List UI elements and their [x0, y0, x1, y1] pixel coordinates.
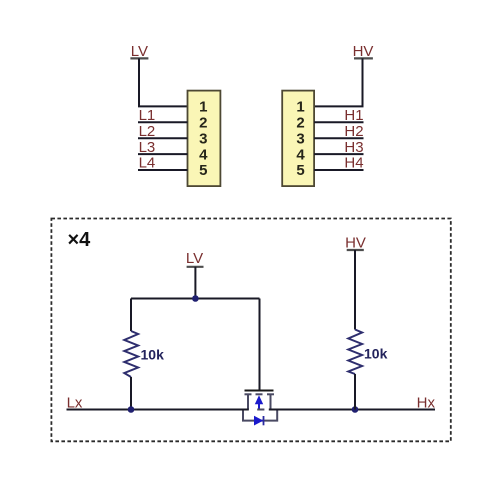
wire net Hx	[269, 409, 435, 411]
svg-text:LV: LV	[186, 250, 203, 267]
wire J1 pin 5 (net L4)	[138, 169, 188, 171]
transistor Q1 bulk foot	[257, 409, 264, 411]
resistor R2 10k	[348, 250, 362, 410]
resistor R1 10k	[124, 299, 138, 410]
transistor Q1 source stub	[247, 394, 249, 409]
svg-text:H1: H1	[344, 107, 363, 124]
svg-text:2: 2	[199, 115, 207, 132]
connector J2	[282, 91, 314, 187]
svg-text:2: 2	[296, 115, 304, 132]
transistor Q1 drain stub	[270, 394, 272, 409]
×4 multiplier cell boundary (dashed box)	[51, 219, 450, 442]
supply LV (top)	[130, 43, 148, 60]
wire LV rail	[131, 298, 260, 300]
svg-text:10k: 10k	[364, 346, 388, 362]
wire LV drop	[194, 267, 196, 299]
supply HV (cell)	[345, 235, 366, 252]
wire J1 pin 3 (net L2)	[138, 137, 188, 139]
wire J1 pin 4 (net L3)	[138, 153, 188, 155]
svg-text:3: 3	[296, 130, 304, 147]
svg-text:4: 4	[296, 146, 305, 163]
svg-text:1: 1	[296, 99, 304, 116]
svg-text:L1: L1	[139, 107, 156, 124]
svg-text:L3: L3	[139, 139, 156, 156]
wire J2 pin 3 (net H2)	[314, 137, 363, 139]
supply LV (cell)	[186, 250, 204, 267]
supply HV (top)	[353, 43, 374, 60]
svg-text:H3: H3	[344, 139, 363, 156]
wire J2 pin 4 (net H3)	[314, 153, 363, 155]
svg-text:H2: H2	[344, 123, 363, 140]
svg-text:1: 1	[199, 99, 207, 116]
junction dot (Lx / R1)	[128, 406, 135, 413]
junction dot (LV rail)	[192, 295, 199, 302]
wire gate drop	[259, 299, 261, 390]
wire LV to J1 pin 1	[139, 58, 188, 106]
svg-text:L2: L2	[139, 123, 156, 140]
wire HV to J2 pin 1	[314, 58, 362, 106]
svg-text:Hx: Hx	[417, 395, 436, 412]
connector J1	[188, 91, 221, 187]
wire net Lx	[67, 409, 249, 411]
transistor Q1 bulk arrow	[255, 395, 263, 409]
svg-text:H4: H4	[344, 155, 363, 172]
svg-text:L4: L4	[139, 155, 156, 172]
transistor Q1 body-diode loop	[243, 410, 277, 421]
svg-text:Lx: Lx	[67, 395, 83, 412]
svg-text:3: 3	[199, 130, 207, 147]
transistor Q1 body-diode	[254, 416, 264, 426]
svg-text:4: 4	[199, 146, 208, 163]
transistor Q1 channel contacts	[245, 393, 275, 395]
wire J2 pin 2 (net H1)	[314, 121, 363, 123]
transistor Q1 gate bar	[245, 390, 274, 392]
svg-text:5: 5	[199, 162, 207, 179]
junction dot (Hx / R2)	[352, 406, 359, 413]
svg-text:5: 5	[296, 162, 304, 179]
svg-text:×4: ×4	[68, 229, 92, 251]
wire J1 pin 2 (net L1)	[138, 121, 188, 123]
wire J2 pin 5 (net H4)	[314, 169, 363, 171]
svg-text:10k: 10k	[141, 347, 165, 363]
